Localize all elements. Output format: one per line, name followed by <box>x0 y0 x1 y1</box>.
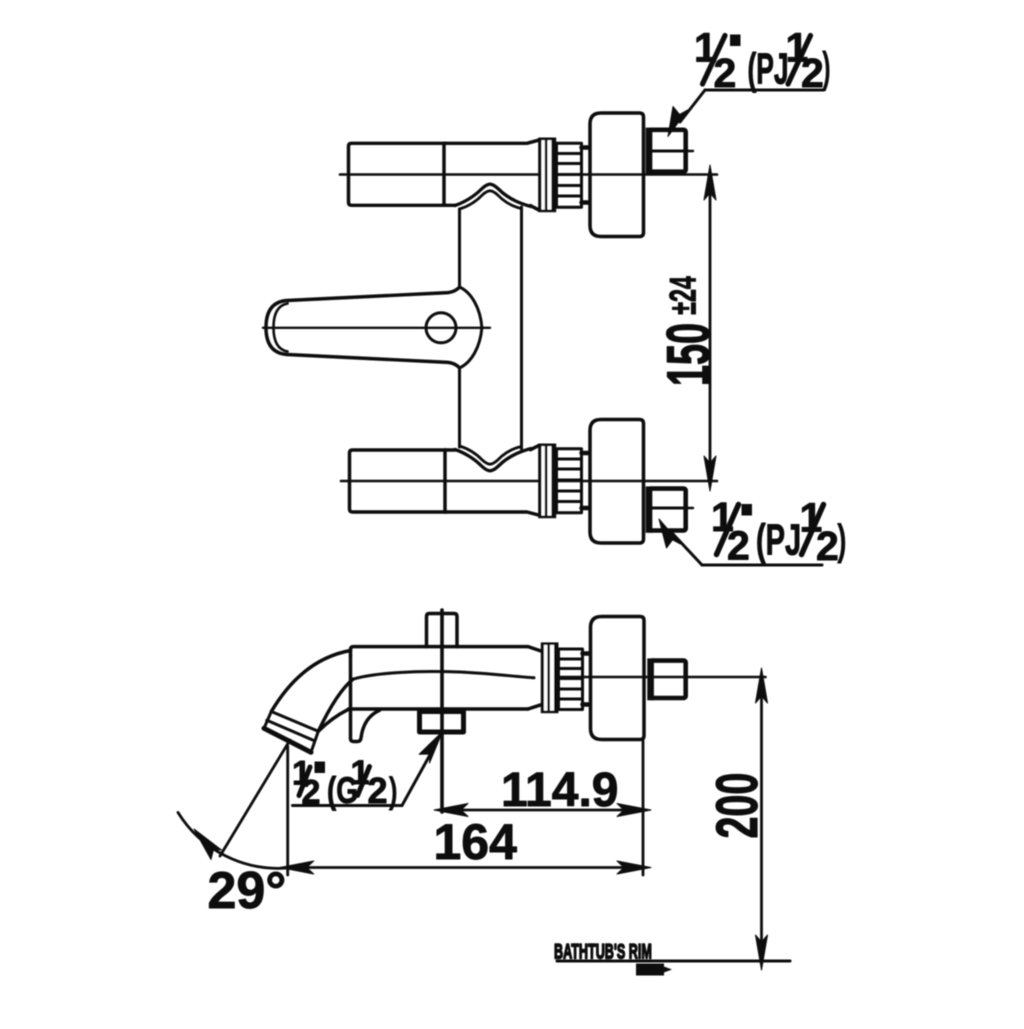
body side contour (continuation of spout inner wall) <box>353 672 534 680</box>
arc arrowhead <box>194 829 222 860</box>
wall flange (bottom) <box>590 420 644 544</box>
leader + label 1/2"(PJ1/2) top <box>668 25 831 137</box>
svg-text:150: 150 <box>655 323 722 386</box>
aerator side edges <box>264 712 318 753</box>
svg-text:±24: ±24 <box>662 275 704 314</box>
dimension 164 <box>280 814 651 874</box>
aerator band lines <box>271 712 318 732</box>
svg-text:29°: 29° <box>208 862 287 920</box>
bottom connection: ribbed nut <box>557 449 582 513</box>
top supply pipe <box>349 140 539 210</box>
spout inner wall curve <box>318 679 353 731</box>
svg-text:(PJ: (PJ <box>756 514 801 564</box>
bottom connection: collar rings <box>538 444 556 519</box>
dimension 150+24 line <box>704 165 716 491</box>
top connection: neck <box>582 148 589 203</box>
bottom connection: neck <box>582 453 589 508</box>
wire top centerline <box>340 173 717 176</box>
diverter knob on top <box>427 614 458 647</box>
svg-text:200: 200 <box>704 773 769 839</box>
bottom hump double curve <box>455 449 531 471</box>
extension line wall face <box>642 740 645 875</box>
side neck <box>583 654 590 705</box>
angle 29 deg: axis diagonal <box>178 740 290 920</box>
angle arc <box>178 813 288 869</box>
bottom outlet fitting (side, bold square) <box>420 712 464 733</box>
svg-text:164: 164 <box>434 814 518 870</box>
handle centerline <box>263 327 490 329</box>
side centerline <box>560 676 766 679</box>
extension line spout tip <box>286 746 289 875</box>
spout lower silhouette <box>318 709 348 731</box>
spout outer curve <box>264 651 353 753</box>
top connection: collar rings <box>538 138 556 213</box>
top connection: ribbed nut <box>557 143 582 207</box>
knob stem centerline <box>440 610 444 812</box>
lever handle <box>263 287 490 368</box>
aerator face <box>264 728 311 752</box>
inlet fitting (bottom) <box>646 486 693 532</box>
left edge <box>458 209 461 287</box>
label 1/2"(G1/2) <box>292 732 443 812</box>
right edge <box>520 207 523 449</box>
handle boss (pointed bulge) <box>460 287 482 368</box>
svg-text:(PJ: (PJ <box>748 43 789 93</box>
under-spout lip / hook <box>351 710 380 741</box>
screw hole <box>426 313 456 343</box>
side body <box>349 647 542 738</box>
dimension 200 <box>704 668 769 970</box>
dimension text 150 +24 <box>655 275 722 386</box>
svg-text:): ) <box>822 42 831 92</box>
dimension 114.9 <box>434 764 651 817</box>
bottom supply pipe <box>350 446 539 515</box>
bathtub rim line <box>554 939 790 975</box>
leader + label 1/2"(PJ1/2) bottom <box>659 494 847 569</box>
side wall flange <box>591 617 645 740</box>
svg-text:2: 2 <box>727 523 750 569</box>
side inlet fitting <box>647 658 685 700</box>
taper to collar <box>528 647 541 709</box>
inner cap contour <box>274 304 288 352</box>
svg-text:BATHTUB'S RIM: BATHTUB'S RIM <box>554 939 652 963</box>
svg-text:): ) <box>837 514 847 564</box>
wire bottom centerline <box>341 480 717 483</box>
top hump double curve <box>455 184 531 206</box>
side ribbed nut <box>559 649 583 710</box>
wall flange (top) <box>590 113 644 237</box>
svg-text:2: 2 <box>816 523 839 569</box>
svg-text:114.9: 114.9 <box>501 764 618 817</box>
inlet fitting (top) <box>646 128 693 174</box>
side collar rings <box>541 642 559 713</box>
faucet body (front view) <box>455 184 531 471</box>
